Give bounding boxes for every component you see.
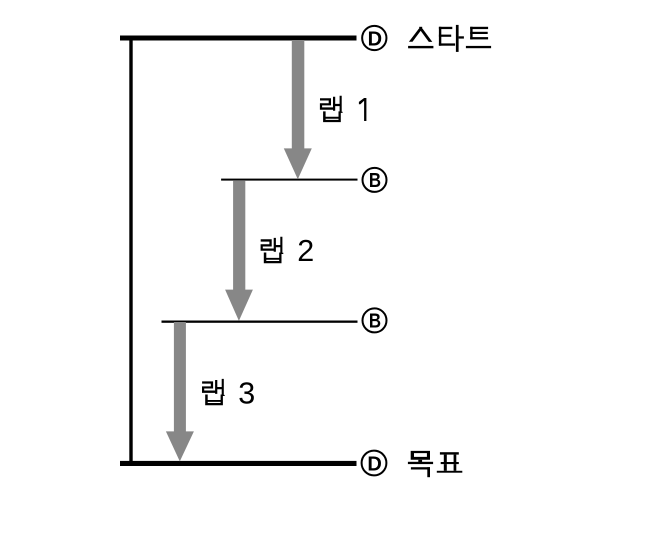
svg-text:D: D — [368, 28, 382, 50]
svg-text:D: D — [367, 453, 381, 475]
label: 스타트 (start) — [408, 25, 491, 52]
label: 랩 3 — [202, 376, 255, 410]
wire: intermediate line B2 — [162, 321, 358, 323]
svg-text:B: B — [369, 311, 381, 333]
wire: left vertical line — [129, 36, 132, 467]
node D (goal) — [362, 451, 387, 476]
node B1 — [363, 168, 387, 192]
svg-text:2: 2 — [297, 234, 314, 268]
node D (start) — [362, 26, 386, 50]
arrow lap1 — [284, 40, 312, 179]
wire: bottom goal line — [120, 461, 357, 466]
wire: intermediate line B1 — [221, 179, 357, 181]
arrow lap3 — [166, 322, 194, 461]
label: 목표 (goal) — [408, 451, 462, 477]
svg-text:B: B — [369, 170, 381, 192]
wire: top start line — [120, 36, 357, 41]
label: 랩 1 — [320, 96, 367, 122]
arrow lap2 — [225, 180, 253, 321]
label: 랩 2 — [261, 234, 315, 268]
svg-text:3: 3 — [238, 376, 255, 410]
node B2 — [363, 308, 387, 332]
